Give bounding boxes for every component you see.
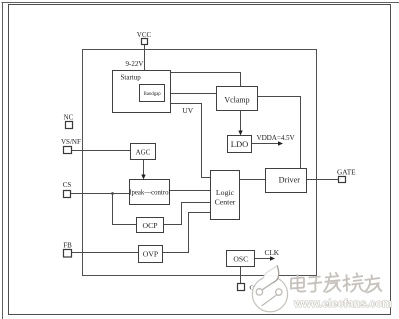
svg-text:CS: CS: [63, 181, 72, 189]
svg-text:AGC: AGC: [136, 148, 151, 156]
svg-text:OVP: OVP: [143, 250, 158, 259]
svg-text:Center: Center: [215, 198, 236, 207]
svg-text:LDO: LDO: [231, 139, 248, 149]
svg-text:9-22V: 9-22V: [126, 60, 144, 68]
svg-text:UV: UV: [182, 106, 193, 115]
svg-text:GATE: GATE: [337, 167, 356, 176]
svg-text:Driver: Driver: [279, 176, 301, 185]
svg-text:Bandgap: Bandgap: [144, 92, 162, 97]
svg-text:Ipeak—control: Ipeak—control: [129, 190, 170, 197]
svg-text:Vclamp: Vclamp: [224, 95, 249, 104]
svg-text:CLK: CLK: [264, 248, 279, 257]
svg-text:VDDA=4.5V: VDDA=4.5V: [257, 134, 296, 142]
svg-text:Logic: Logic: [216, 188, 235, 197]
svg-text:FB: FB: [63, 241, 72, 249]
svg-text:OCP: OCP: [143, 221, 158, 230]
svg-text:VS/NF: VS/NF: [61, 138, 81, 146]
svg-text:Startup: Startup: [121, 73, 142, 81]
svg-text:OSC: OSC: [233, 255, 248, 264]
svg-text:NC: NC: [64, 114, 74, 122]
svg-text:VCC: VCC: [137, 31, 152, 39]
svg-text:www.elecfans.com: www.elecfans.com: [293, 298, 392, 310]
